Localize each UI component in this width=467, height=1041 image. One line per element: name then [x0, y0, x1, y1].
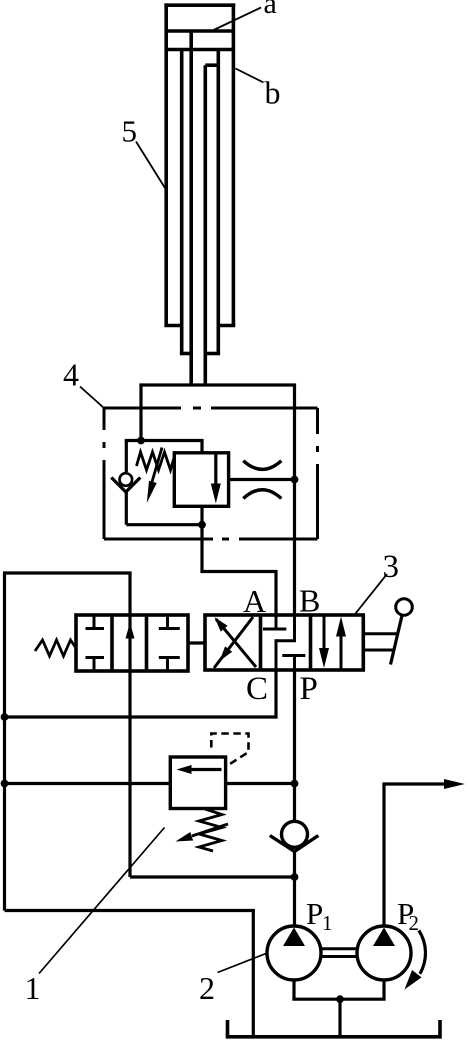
- svg-text:1: 1: [25, 970, 41, 1006]
- cylinder 5 gland band line: [166, 48, 233, 52]
- leader line for label 2: [218, 954, 267, 973]
- unloading valve divider 2: [145, 615, 149, 671]
- cylinder 5 top cap edge: [164, 3, 235, 7]
- adjustability arrow across spring: [147, 448, 162, 504]
- pump P1 suction line: [292, 980, 295, 1000]
- pump P2 rotation arrow: [405, 930, 426, 989]
- wire tank return horizontal: [5, 909, 255, 912]
- wire block4 left branch down: [139, 385, 142, 441]
- valve 3 left position crossed path 2: [215, 617, 257, 667]
- wire top-left horizontal: [5, 571, 132, 574]
- cylinder 5 outer barrel bottom right: [218, 324, 235, 328]
- valve 3 left position crossed path 1: [214, 617, 253, 668]
- cylinder 5 stage-2 right wall: [217, 50, 221, 354]
- wire check valve to pump P1: [293, 852, 296, 927]
- wire C-port drop: [274, 670, 277, 719]
- valve block 4 chain-line enclosure top edge: [104, 407, 318, 410]
- valve block 4 chain-line enclosure right edge: [316, 408, 319, 539]
- telescopic cylinder 5 outer barrel left wall: [164, 3, 168, 325]
- flow control valve internal arrow: [211, 454, 221, 504]
- leader line for label 3: [356, 574, 388, 614]
- svg-text:a: a: [264, 0, 277, 20]
- pump P2 circle: [357, 926, 411, 980]
- svg-text:b: b: [265, 75, 281, 111]
- tank symbol: [228, 1020, 441, 1037]
- leader line for label a: [211, 8, 262, 32]
- svg-text:C: C: [246, 671, 268, 707]
- wire relief valve outlet: [226, 782, 295, 785]
- junction dot relief outlet on P line: [291, 780, 299, 788]
- flow control valve body in block 4: [174, 453, 228, 507]
- junction dot at throttle outlet: [291, 476, 299, 484]
- relief valve 1 adjustability arrow: [176, 824, 229, 842]
- wire sub-circuit left lower: [125, 492, 128, 525]
- junction dot suction manifold: [336, 995, 344, 1003]
- unloading valve left cell top tee: [86, 615, 105, 629]
- fixed throttle lower arc: [243, 490, 281, 499]
- svg-text:2: 2: [199, 970, 215, 1006]
- check valve seat: [270, 836, 319, 852]
- cylinder 5 stage-2 bottom left: [180, 352, 191, 356]
- leader line for label 5: [136, 142, 165, 189]
- junction dot C return on far-left line: [1, 713, 9, 721]
- label 3: [383, 549, 400, 585]
- wire pump suction manifold: [292, 998, 385, 1001]
- directional valve 3 body: [205, 615, 363, 670]
- block 4 top manifold line: [139, 383, 296, 386]
- wire flow valve right port to throttle: [229, 478, 297, 481]
- unloading valve return spring: [35, 640, 76, 656]
- label 5: [122, 114, 138, 149]
- valve block 4 chain-line enclosure bottom edge: [104, 538, 318, 541]
- relief valve 1 spring: [199, 809, 222, 851]
- svg-text:5: 5: [122, 114, 138, 149]
- svg-text:3: 3: [383, 549, 400, 585]
- cylinder 5 rod hook line: [205, 63, 218, 67]
- wire block4 right branch / B line: [293, 385, 296, 615]
- wire sub-circuit top: [125, 439, 204, 442]
- valve 3 right position up path: [336, 617, 346, 671]
- port label C: [246, 671, 268, 707]
- svg-text:P: P: [300, 671, 318, 707]
- wire sub-circuit bottom: [126, 523, 202, 526]
- label P2: [397, 896, 419, 935]
- check valve in block 4 ball: [120, 473, 133, 486]
- label b: [265, 75, 281, 111]
- leader line for label 1: [39, 828, 165, 974]
- valve 3 centre position port P blocked tee: [282, 656, 305, 671]
- pump P1 outlet triangle: [283, 928, 305, 947]
- pump P2 suction line: [382, 980, 385, 1000]
- valve 3 position divider 2: [309, 615, 313, 670]
- wire relief branch horizontal left: [5, 782, 171, 785]
- wire unloading-to-pump horizontal: [130, 875, 295, 878]
- wire far-left vertical: [3, 571, 6, 910]
- wire between unloading valve and valve 3: [188, 641, 205, 644]
- valve 3 centre position port A blocked tee: [263, 615, 286, 629]
- svg-text:B: B: [299, 583, 320, 619]
- label P1: [306, 896, 333, 935]
- valve 3 position divider 1: [259, 615, 263, 670]
- port label A: [243, 583, 266, 619]
- unloading valve right cell top tee: [159, 615, 180, 629]
- cylinder 5 stage-2 bottom right: [205, 352, 220, 356]
- junction dot on pump line: [291, 873, 299, 881]
- check valve ball: [282, 821, 308, 847]
- telescopic cylinder 5 outer barrel right wall: [232, 3, 236, 325]
- label 2: [199, 970, 215, 1006]
- relief valve 1 pilot dashed line: [211, 734, 248, 766]
- pump coupling shaft lines: [321, 949, 358, 957]
- hand lever pivot lines: [363, 634, 399, 650]
- cylinder 5 rod right wall: [204, 65, 208, 385]
- wire flow valve bottom port: [200, 506, 203, 524]
- valve 3 right position down path: [319, 615, 329, 668]
- wire through unloading valve vertical: [128, 573, 131, 877]
- label 4: [63, 357, 79, 393]
- valve 3 centre position B-to-C path: [276, 615, 295, 670]
- leader line for label 4: [80, 387, 105, 409]
- pump P1 circle: [267, 926, 321, 980]
- fixed throttle upper arc: [243, 461, 281, 470]
- cylinder 5 cap a bottom line: [166, 29, 233, 33]
- cylinder 5 rod left wall: [189, 50, 193, 386]
- unloading valve divider 1: [110, 615, 114, 671]
- port label B: [299, 583, 320, 619]
- cylinder 5 outer barrel bottom left: [164, 324, 181, 328]
- junction dot block4 left branch: [137, 437, 145, 445]
- leader line for label b: [236, 69, 264, 83]
- wire A-line from block4 to valve port A: [202, 525, 276, 615]
- pump P2 outlet triangle: [373, 928, 395, 947]
- wire sub-circuit right drop to flow valve: [200, 441, 203, 453]
- hand lever knob: [396, 599, 413, 616]
- unloading valve centre flow arrow: [126, 623, 135, 639]
- svg-text:1: 1: [322, 911, 333, 935]
- hand lever rod: [391, 615, 403, 664]
- relief valve 1 body: [170, 757, 225, 809]
- svg-text:P: P: [306, 896, 323, 931]
- port label P: [300, 671, 318, 707]
- check valve in block 4 seat: [111, 478, 140, 493]
- unloading valve left cell bottom tee: [86, 658, 105, 672]
- wire C-port return horizontal: [5, 715, 278, 718]
- svg-text:A: A: [243, 583, 266, 619]
- pump P2 outlet line up: [382, 784, 385, 927]
- relief valve 1 internal arrow: [177, 765, 222, 774]
- cylinder 5 cap band divider: [189, 31, 193, 50]
- wire tank return drop: [252, 911, 255, 1036]
- wire P2 output arrow: [382, 779, 465, 789]
- spring of flow control valve: [137, 452, 175, 470]
- cylinder 5 stage-2 left wall: [180, 50, 184, 354]
- label 1: [25, 970, 41, 1006]
- unloading valve right cell bottom tee: [159, 658, 180, 672]
- unloading valve body: [76, 615, 188, 671]
- junction dot relief branch on far-left line: [1, 780, 9, 788]
- svg-text:2: 2: [409, 911, 420, 935]
- wire P-port line valve3 to check valve: [293, 670, 296, 821]
- wire sub-circuit left upper: [125, 441, 128, 473]
- junction dot at flow valve bottom: [198, 521, 206, 529]
- svg-text:4: 4: [63, 357, 79, 393]
- wire suction line to tank: [338, 999, 341, 1035]
- valve block 4 chain-line enclosure left edge: [103, 408, 106, 539]
- label a: [264, 0, 277, 20]
